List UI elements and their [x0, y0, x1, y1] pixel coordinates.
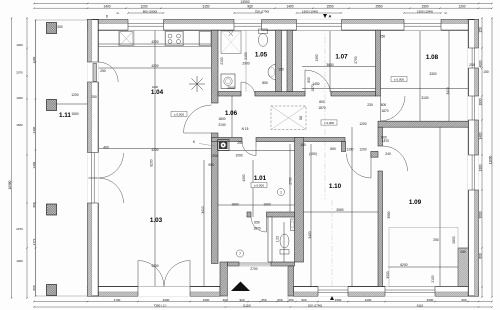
wall stub below H3: [342, 142, 346, 152]
svg-text:650: 650: [261, 298, 266, 302]
1.02 left wall: [268, 217, 272, 262]
svg-text:1200: 1200: [71, 93, 78, 97]
top dimension line 3: [128, 12, 164, 14]
top dimension line 2: [34, 7, 492, 9]
svg-text:150: 150: [288, 298, 293, 302]
stove with burners: [166, 32, 184, 46]
svg-text:2700: 2700: [354, 56, 358, 63]
svg-text:230: 230: [367, 103, 373, 107]
shaft wall B3 (1.07 left): [287, 30, 293, 91]
right dimension column 1: [481, 18, 483, 297]
svg-text:1.06: 1.06: [225, 110, 238, 117]
svg-text:4200: 4200: [151, 148, 158, 152]
svg-text:1400: 1400: [478, 132, 482, 139]
svg-text:3650: 3650: [326, 63, 333, 67]
svg-text:2070: 2070: [16, 227, 23, 231]
svg-text:1.01: 1.01: [254, 175, 267, 182]
svg-text:± 0,000: ± 0,000: [254, 183, 264, 187]
svg-text:800 (1900): 800 (1900): [143, 9, 158, 13]
svg-text:1500: 1500: [16, 123, 23, 127]
wall V1 lower: [212, 133, 219, 264]
svg-text:1500: 1500: [71, 112, 78, 116]
circled tag 7: [236, 250, 243, 257]
svg-text:600: 600: [461, 298, 466, 302]
svg-text:1200: 1200: [365, 298, 372, 302]
svg-text:1100: 1100: [347, 148, 354, 152]
window opening top wall: [404, 19, 441, 31]
svg-text:250: 250: [237, 141, 243, 145]
porch wall left: [220, 262, 228, 296]
exterior wall bottom left segment: [88, 287, 221, 297]
svg-text:650: 650: [330, 147, 336, 151]
svg-text:2100: 2100: [244, 52, 248, 59]
kitchen sink: [120, 32, 134, 46]
door 1.06->1.05 (H1): [240, 82, 242, 96]
svg-text:600: 600: [478, 253, 482, 259]
svg-text:1970: 1970: [311, 84, 315, 91]
top dimension line 1: [34, 3, 492, 5]
wall H3 seg b: [256, 138, 345, 142]
svg-text:1000: 1000: [235, 154, 242, 158]
svg-text:150: 150: [478, 27, 482, 33]
entrance door leaf: [239, 262, 271, 264]
svg-text:150: 150: [483, 70, 489, 74]
wall H1 seg c (below 1.07): [331, 92, 376, 97]
interior dimension guide lines: [56, 30, 468, 287]
wall pier bottom right: [458, 248, 468, 287]
door terrace->1.04: [93, 64, 97, 82]
svg-text:250: 250: [212, 154, 218, 158]
svg-text:1300: 1300: [16, 43, 23, 47]
svg-text:2070: 2070: [16, 71, 23, 75]
svg-text:1000: 1000: [263, 203, 270, 207]
wall V3b lower: [378, 171, 383, 287]
wall H4 right part: [267, 212, 295, 217]
double terrace door left wall ->1.03: [89, 177, 99, 179]
svg-text:1200: 1200: [140, 5, 147, 9]
opening left wall: [87, 153, 99, 204]
section line A-A: [324, 14, 326, 200]
svg-text:1.02: 1.02: [275, 236, 279, 243]
washbasin 1.05: [268, 65, 276, 80]
faucet mark: [229, 32, 234, 37]
entrance marker triangle: [231, 282, 250, 292]
svg-text:1870: 1870: [318, 106, 325, 110]
window opening top wall: [234, 19, 262, 31]
svg-text:3400: 3400: [32, 161, 36, 168]
rug/bed outline 1.09: [389, 228, 458, 287]
svg-text:600: 600: [277, 298, 282, 302]
svg-text:2900: 2900: [227, 86, 234, 90]
svg-text:1800: 1800: [218, 117, 225, 121]
attic stair S8 (dashed): [271, 106, 306, 130]
svg-text:1: 1: [280, 190, 282, 194]
svg-text:1.08: 1.08: [426, 54, 439, 61]
door 1.08->1.09 (HR): [380, 96, 382, 121]
toilet 1.02: [280, 250, 289, 255]
wall H1 seg a (1.05 bottom): [218, 92, 241, 97]
svg-text:750 (1790): 750 (1790): [255, 9, 270, 13]
terrace 1.11 outline: [36, 20, 88, 296]
svg-text:1500: 1500: [421, 5, 428, 9]
wall V3b (1.10|1.09) upper: [378, 127, 383, 146]
wall V2 (1.01|1.10): [295, 138, 304, 263]
svg-text:2100: 2100: [218, 123, 225, 127]
svg-text:3100: 3100: [421, 96, 428, 100]
french doors bottom 1.03: [137, 261, 139, 287]
svg-text:1.05: 1.05: [255, 52, 268, 59]
svg-text:3400: 3400: [308, 231, 312, 238]
left dimension column 1: [11, 18, 13, 298]
svg-text:1870: 1870: [381, 109, 388, 113]
level marker boxes: [171, 111, 187, 116]
svg-text:800: 800: [32, 285, 36, 290]
svg-text:900: 900: [239, 298, 244, 302]
opening bottom wall: [385, 286, 435, 296]
svg-text:1400: 1400: [286, 5, 293, 9]
svg-text:1400: 1400: [103, 5, 110, 9]
svg-text:A: A: [329, 14, 332, 19]
svg-text:900: 900: [301, 298, 306, 302]
svg-text:250: 250: [380, 35, 386, 39]
door 1.06->1.01 (H3): [255, 142, 257, 156]
door 1.01->1.10 (nook): [370, 154, 372, 179]
svg-text:4200: 4200: [151, 264, 158, 268]
wall H4 (1.01|1.02) stub: [247, 212, 251, 217]
svg-text:(150): (150): [309, 152, 317, 156]
svg-text:3410: 3410: [201, 206, 205, 213]
svg-text:1500 (1040): 1500 (1040): [302, 9, 318, 13]
svg-text:3150: 3150: [202, 5, 209, 9]
door 1.10->1.09 (V3b): [383, 146, 408, 171]
svg-text:1000: 1000: [203, 298, 210, 302]
svg-text:300: 300: [57, 25, 63, 29]
porch wall top seg a: [228, 262, 240, 266]
svg-text:1200: 1200: [458, 5, 465, 9]
svg-text:4000: 4000: [478, 60, 482, 67]
svg-text:13900: 13900: [240, 0, 249, 4]
svg-text:250: 250: [91, 95, 97, 99]
fridge: [200, 32, 212, 46]
door 1.04->1.06 (V1): [184, 132, 212, 134]
svg-text:(1110): (1110): [243, 303, 251, 307]
bath wall B2 (1.05 right): [276, 30, 282, 91]
window opening top wall: [297, 19, 342, 31]
plant/decor star: [189, 76, 205, 92]
svg-text:1300: 1300: [315, 54, 319, 61]
svg-text:900: 900: [32, 202, 36, 207]
exterior wall bottom right segment: [294, 287, 479, 297]
svg-text:10380: 10380: [8, 180, 12, 189]
porch wall right: [288, 266, 294, 296]
bottom dimension line 2: [34, 306, 492, 308]
svg-text:900: 900: [247, 5, 253, 9]
right dimension column 2: [491, 18, 493, 297]
svg-text:1300: 1300: [16, 259, 23, 263]
svg-text:1300: 1300: [478, 164, 482, 171]
svg-text:250: 250: [100, 69, 106, 73]
column P4: [47, 285, 57, 296]
svg-text:2700: 2700: [250, 267, 257, 271]
toilet 1.05: [259, 29, 268, 34]
svg-text:± 0,000: ± 0,000: [324, 121, 334, 125]
svg-text:1300: 1300: [16, 96, 23, 100]
wall HR (1.08|1.09): [378, 121, 468, 127]
svg-text:4300: 4300: [242, 174, 246, 181]
svg-text:250: 250: [469, 63, 475, 67]
svg-text:800: 800: [319, 100, 325, 104]
svg-text:900: 900: [208, 163, 214, 167]
left dimension column 2: [26, 18, 28, 298]
svg-text:6110: 6110: [417, 303, 424, 307]
svg-text:kl.: kl.: [117, 11, 120, 15]
svg-text:1.03: 1.03: [150, 217, 163, 224]
svg-text:2360: 2360: [32, 126, 36, 133]
svg-text:2500: 2500: [427, 298, 434, 302]
left dimension column 3: [35, 20, 37, 296]
nook wall (1.10 entry): [371, 151, 378, 157]
svg-text:± 0,000: ± 0,000: [394, 77, 404, 81]
svg-text:1.07: 1.07: [335, 54, 348, 61]
svg-text:240: 240: [385, 152, 391, 156]
window opening right wall: [468, 48, 479, 68]
svg-text:2900: 2900: [242, 62, 249, 66]
svg-text:4200: 4200: [151, 64, 158, 68]
wall V1 (1.04|middle) upper: [212, 30, 219, 103]
svg-text:3000: 3000: [386, 271, 390, 278]
svg-text:1800: 1800: [231, 203, 238, 207]
opening bottom wall: [318, 286, 348, 296]
svg-text:2950: 2950: [375, 5, 382, 9]
svg-text:4200: 4200: [151, 40, 158, 44]
svg-text:1.04: 1.04: [151, 89, 164, 96]
svg-text:3000: 3000: [478, 211, 482, 218]
porch slab: [228, 266, 289, 302]
svg-text:1200: 1200: [359, 148, 366, 152]
column P1: [47, 23, 57, 34]
svg-text:11030: 11030: [488, 155, 492, 164]
bottom dimension line 1: [34, 301, 492, 303]
svg-text:kl.: kl.: [445, 11, 448, 15]
svg-text:1870: 1870: [382, 139, 389, 143]
kitchen counter: [98, 46, 211, 48]
svg-text:2100: 2100: [431, 275, 435, 282]
svg-text:400: 400: [103, 146, 109, 150]
column P2: [47, 100, 57, 111]
column P3: [47, 204, 57, 215]
svg-text:7390 ( 2 ): 7390 ( 2 ): [154, 303, 167, 307]
washing machine: [221, 74, 235, 89]
svg-text:1500: 1500: [335, 298, 342, 302]
svg-text:2000: 2000: [163, 298, 170, 302]
svg-text:± 0,000: ± 0,000: [174, 112, 184, 116]
window opening right wall: [468, 155, 479, 190]
exterior wall top: [88, 20, 479, 31]
window opening top wall: [128, 19, 164, 31]
porch wall top seg b: [271, 262, 295, 266]
svg-text:1.10: 1.10: [329, 183, 342, 190]
svg-text:800: 800: [307, 77, 311, 83]
1.02 washbasin counter: [291, 219, 295, 231]
svg-text:6200: 6200: [400, 263, 407, 267]
svg-text:1200: 1200: [359, 122, 366, 126]
svg-text:1870: 1870: [253, 227, 260, 231]
opening bottom wall: [138, 286, 190, 296]
opening left wall: [87, 62, 99, 82]
svg-text:850: 850: [262, 81, 268, 85]
boiler K: [218, 140, 230, 151]
door 1.01->1.02 (H4): [266, 217, 268, 232]
svg-text:400: 400: [222, 298, 227, 302]
svg-text:9200: 9200: [150, 159, 154, 166]
wall H3 (1.06|1.01) seg a: [212, 138, 243, 142]
svg-text:250: 250: [433, 238, 439, 242]
svg-text:3300: 3300: [429, 72, 436, 76]
door 1.07->1.10 (H1): [304, 70, 306, 96]
svg-text:1500: 1500: [326, 5, 333, 9]
shower stall: [221, 31, 241, 54]
svg-text:250: 250: [460, 250, 466, 254]
svg-text:1.09: 1.09: [409, 199, 422, 206]
svg-text:150: 150: [278, 68, 284, 72]
wall H1 seg b: [255, 92, 305, 97]
svg-text:3410: 3410: [446, 87, 450, 94]
exterior wall left: [88, 20, 99, 297]
svg-text:1500 (1040): 1500 (1040): [417, 9, 433, 13]
bath partition line: [245, 30, 247, 91]
svg-text:1.11: 1.11: [59, 112, 71, 119]
window opening right wall: [468, 96, 479, 120]
svg-text:3980: 3980: [387, 211, 391, 218]
svg-text:800: 800: [381, 103, 387, 107]
svg-text:1700: 1700: [114, 298, 121, 302]
svg-text:650: 650: [254, 221, 260, 225]
svg-text:1830: 1830: [478, 98, 482, 105]
K marker: [199, 144, 215, 147]
svg-text:150 (1790): 150 (1790): [308, 303, 323, 307]
wall V3 (1.07|1.08): [376, 30, 381, 96]
svg-text:S8: S8: [299, 116, 303, 120]
svg-text:2650: 2650: [336, 208, 343, 212]
svg-text:4200: 4200: [152, 85, 159, 89]
svg-text:150: 150: [300, 143, 306, 147]
svg-text:2800: 2800: [452, 236, 456, 243]
svg-text:2700: 2700: [289, 177, 293, 184]
svg-text:2773: 2773: [32, 238, 36, 245]
svg-text:2100: 2100: [220, 57, 224, 64]
svg-text:N 15: N 15: [242, 127, 249, 131]
exterior wall right: [468, 20, 478, 297]
svg-text:7: 7: [239, 252, 241, 256]
circled tag 1: [277, 188, 284, 195]
svg-text:1200: 1200: [32, 56, 36, 63]
